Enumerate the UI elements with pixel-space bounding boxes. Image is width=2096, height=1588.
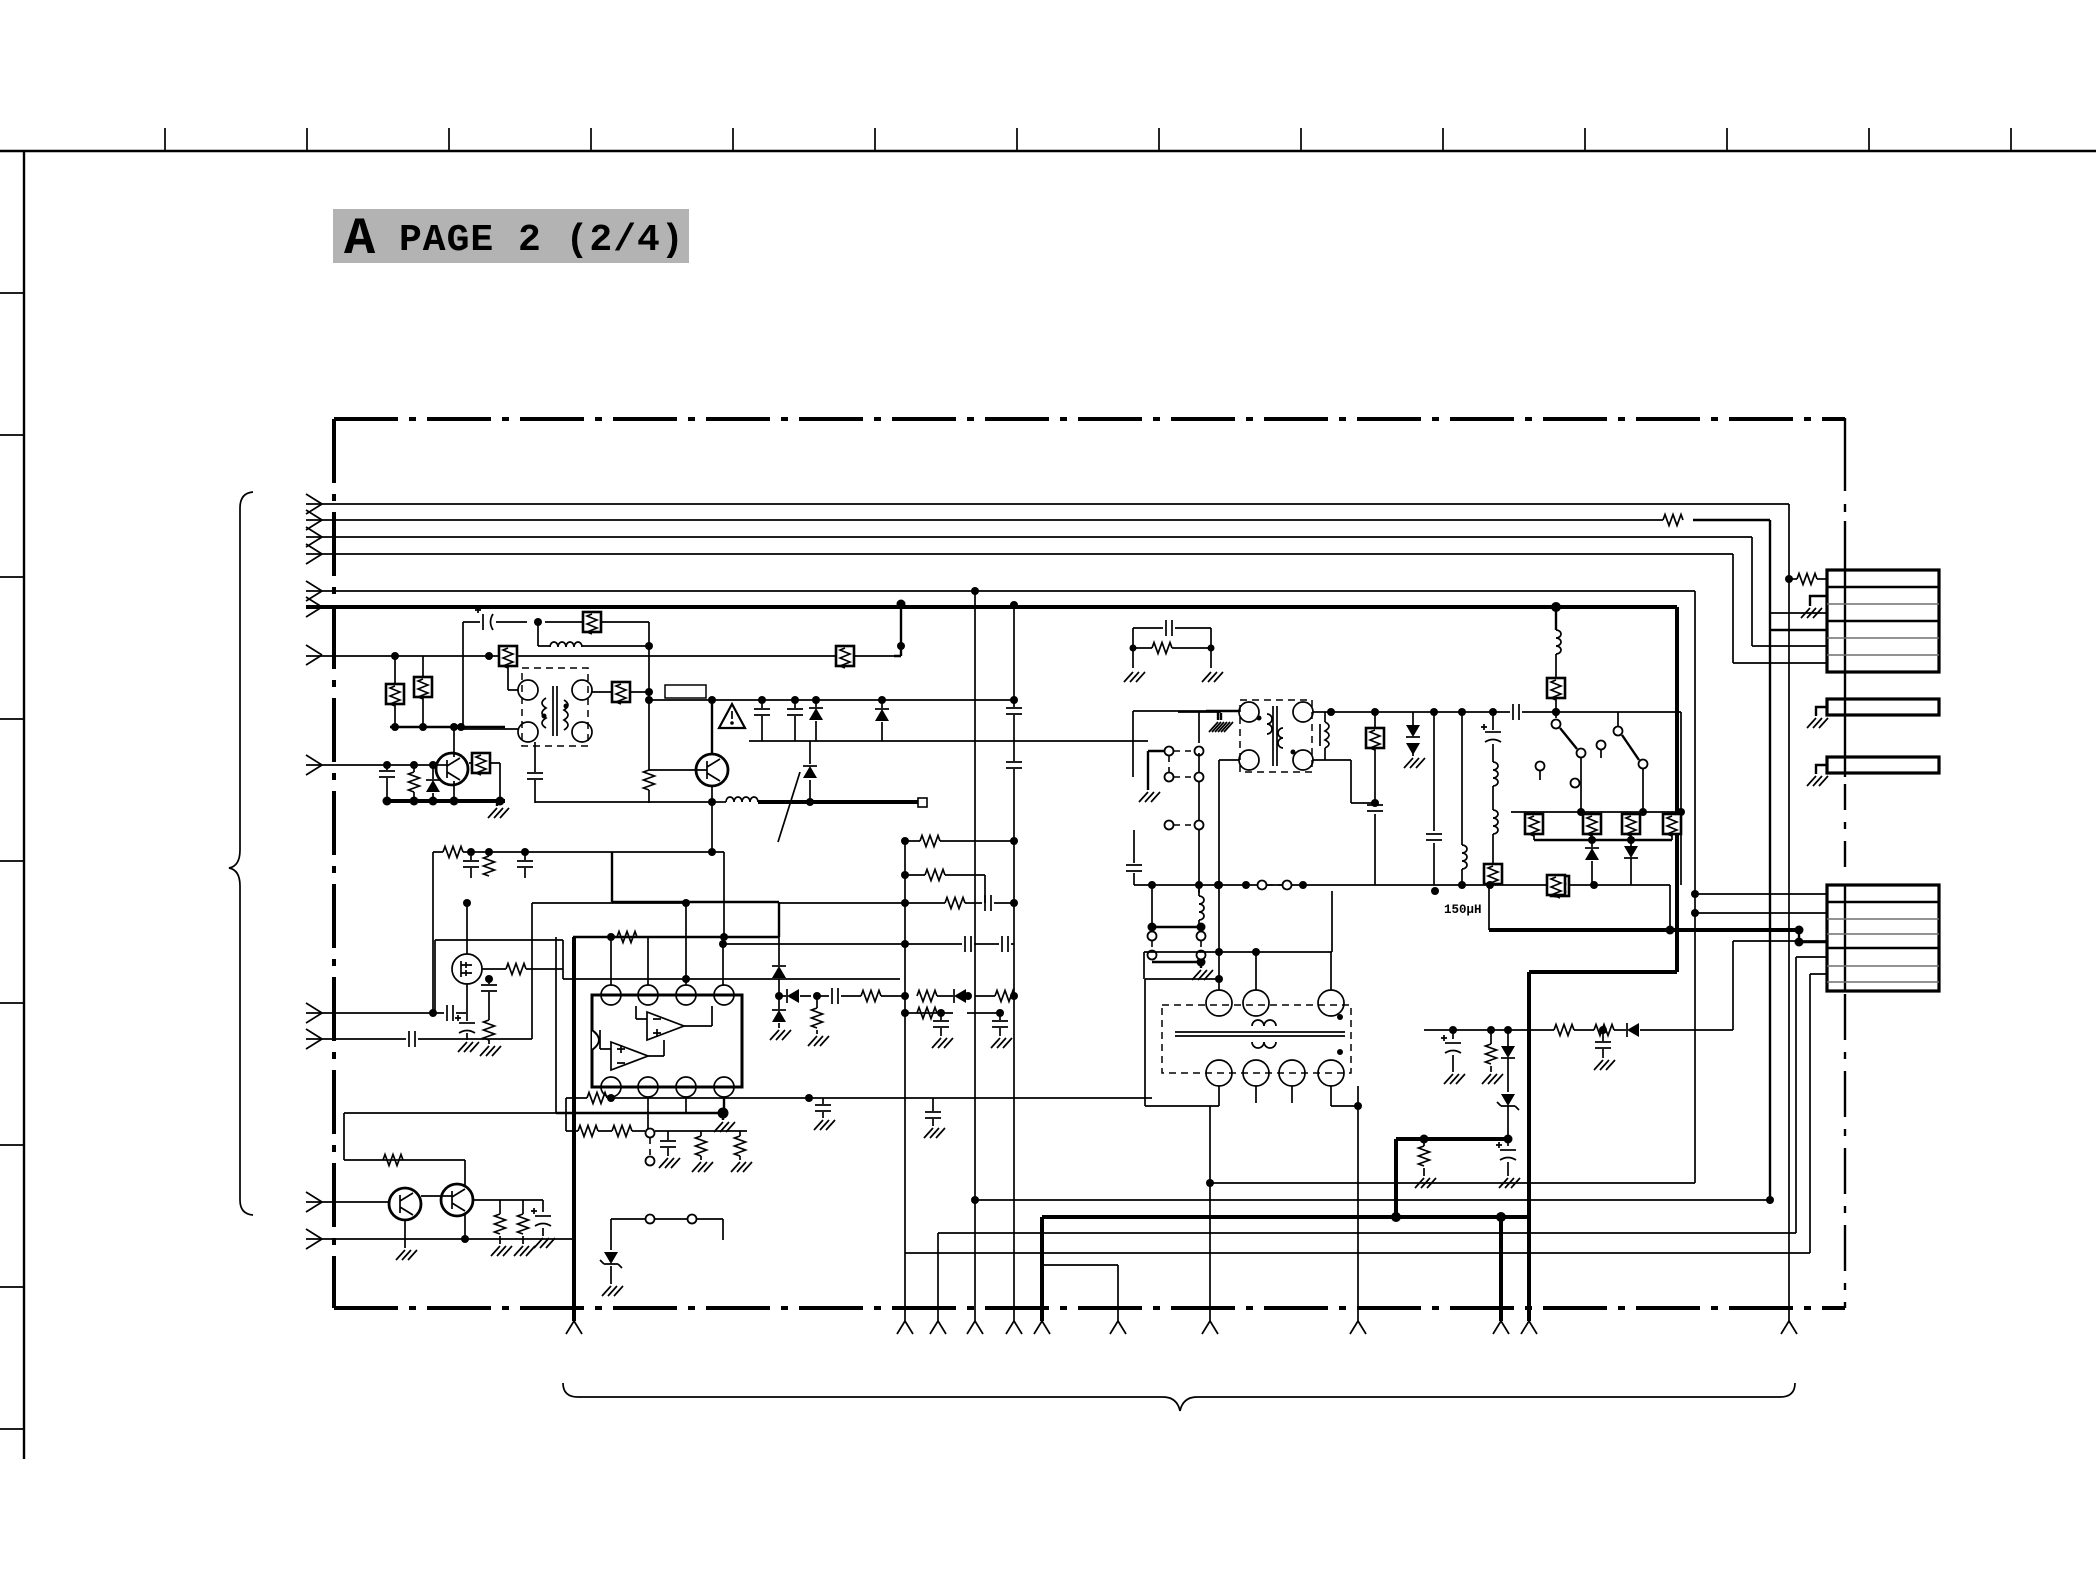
svg-text:150µH: 150µH <box>1444 903 1482 917</box>
svg-text:PAGE 2 (2/4): PAGE 2 (2/4) <box>399 219 685 262</box>
svg-text:A: A <box>344 210 376 269</box>
